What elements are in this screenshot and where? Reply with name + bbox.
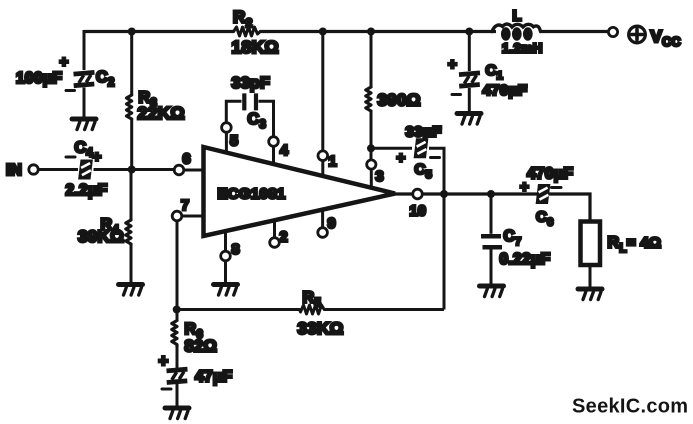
svg-text:+: + bbox=[60, 54, 69, 71]
wire RL bottom bbox=[589, 265, 592, 287]
node junction rail-C1 bbox=[465, 28, 473, 36]
svg-text:5: 5 bbox=[230, 134, 238, 150]
svg-text:3: 3 bbox=[376, 169, 384, 185]
resistor R 390 bbox=[366, 87, 371, 111]
capacitor C6 bbox=[520, 166, 573, 229]
node junction rail-390 bbox=[367, 28, 375, 36]
wire feedback vertical bbox=[443, 194, 446, 310]
wire C2 top bbox=[83, 30, 86, 70]
node junction output-C7 bbox=[487, 190, 495, 198]
wire top rail left segment bbox=[84, 30, 609, 33]
ground under RL bbox=[578, 289, 602, 300]
node junction feedback-R6 bbox=[173, 306, 181, 314]
svg-text:9: 9 bbox=[328, 216, 336, 232]
wire C1 bottom bbox=[468, 88, 471, 112]
capacitor C1 bbox=[448, 56, 527, 99]
wire C5 right + corner down bbox=[429, 148, 444, 194]
inductor L bbox=[492, 9, 543, 56]
resistor R2 bbox=[234, 27, 261, 36]
capacitor C4 bbox=[66, 140, 108, 200]
svg-text:7: 7 bbox=[181, 198, 189, 214]
capacitor C47uF bbox=[159, 353, 233, 390]
svg-text:SeekIC.com: SeekIC.com bbox=[572, 396, 688, 418]
pin 8 bbox=[224, 232, 227, 252]
resistor RL bbox=[581, 222, 601, 266]
wire C1 top bbox=[468, 32, 471, 72]
svg-text:2.2μF: 2.2μF bbox=[66, 182, 108, 199]
wire C7 branch bbox=[490, 194, 493, 234]
pin 10 bbox=[413, 189, 423, 199]
svg-text:1: 1 bbox=[329, 154, 337, 170]
ground under C1 bbox=[457, 114, 481, 125]
node junction rail-pin1 bbox=[319, 28, 327, 36]
pin 1 bbox=[318, 151, 328, 161]
svg-text:100μF: 100μF bbox=[16, 70, 62, 87]
svg-text:ECG1081: ECG1081 bbox=[218, 186, 286, 203]
svg-text:+: + bbox=[448, 56, 457, 73]
svg-text:18KΩ: 18KΩ bbox=[232, 37, 279, 57]
node junction input bbox=[128, 166, 136, 174]
ground under C7 bbox=[480, 286, 504, 297]
wire C2 bottom bbox=[83, 88, 86, 118]
ground under pin 8 bbox=[214, 285, 238, 296]
resistor R5 bbox=[300, 305, 325, 314]
svg-text:IN: IN bbox=[6, 162, 22, 179]
svg-text:82Ω: 82Ω bbox=[185, 338, 217, 356]
wire C4 to pin6 bbox=[94, 168, 175, 171]
svg-text:0.22μF: 0.22μF bbox=[500, 251, 551, 268]
capacitor C7 bbox=[481, 228, 550, 268]
terminal IN open circle bbox=[29, 165, 38, 174]
pin 9 bbox=[321, 210, 324, 228]
resistor R3 bbox=[127, 95, 132, 119]
svg-text:47μF: 47μF bbox=[195, 369, 232, 386]
wire IN to C4 bbox=[38, 168, 78, 171]
op-amp U1 ECG1081 bbox=[204, 147, 396, 236]
pin 3 bbox=[367, 160, 376, 169]
svg-text:+: + bbox=[520, 179, 529, 196]
svg-text:1.2mH: 1.2mH bbox=[502, 41, 543, 56]
pin 10 output wire bbox=[395, 194, 590, 220]
svg-text:+: + bbox=[397, 150, 406, 167]
svg-text:33pF: 33pF bbox=[232, 75, 271, 92]
ground under R4 bbox=[119, 285, 143, 296]
svg-text:470μF: 470μF bbox=[527, 166, 573, 183]
terminal Vcc open circle bbox=[608, 27, 617, 36]
wire 390 branch bbox=[370, 32, 373, 160]
svg-text:390Ω: 390Ω bbox=[378, 91, 421, 110]
capacitor C5 bbox=[397, 124, 442, 182]
svg-text:470μF: 470μF bbox=[483, 82, 528, 99]
capacitor C3 plates bbox=[244, 93, 256, 110]
pin 6 bbox=[174, 165, 184, 175]
svg-text:+: + bbox=[93, 149, 102, 166]
power symbol Vcc bbox=[629, 26, 681, 49]
svg-text:33KΩ: 33KΩ bbox=[298, 319, 344, 338]
pin 1 wire from rail bbox=[321, 32, 324, 151]
wire R6 branch bbox=[176, 221, 179, 369]
svg-text:2: 2 bbox=[280, 230, 288, 246]
wire 47uF bottom bbox=[176, 384, 179, 407]
svg-text:8: 8 bbox=[232, 242, 240, 258]
svg-text:L: L bbox=[513, 9, 522, 25]
pin 5 bbox=[222, 123, 232, 133]
wire C5 left bbox=[371, 147, 412, 150]
svg-text:10: 10 bbox=[410, 204, 427, 220]
pin 2 bbox=[273, 221, 276, 238]
wire feedback horizontal bbox=[177, 308, 444, 311]
capacitor C3 loop wires bbox=[226, 101, 273, 136]
node junction 390-C5 bbox=[367, 144, 375, 152]
resistor R4 bbox=[126, 220, 131, 244]
svg-text:22KΩ: 22KΩ bbox=[138, 103, 185, 123]
wire R4 branch bbox=[130, 170, 133, 284]
svg-text:39KΩ: 39KΩ bbox=[78, 227, 124, 246]
capacitor C2 bbox=[16, 54, 115, 91]
ground under 47uF bbox=[165, 408, 189, 419]
svg-text:6: 6 bbox=[183, 152, 191, 168]
pin 7 bbox=[172, 211, 182, 221]
node junction output-feedback bbox=[440, 190, 448, 198]
svg-text:33μF: 33μF bbox=[406, 124, 442, 141]
svg-text:4: 4 bbox=[280, 143, 288, 159]
node junction rail-R3 bbox=[128, 28, 136, 36]
wire C7 bottom bbox=[490, 249, 493, 284]
ground under C2 bbox=[72, 119, 96, 130]
wire R3 branch bbox=[130, 32, 133, 170]
svg-text:+: + bbox=[159, 353, 169, 371]
resistor R6 bbox=[172, 321, 177, 347]
pin 4 bbox=[269, 137, 279, 147]
